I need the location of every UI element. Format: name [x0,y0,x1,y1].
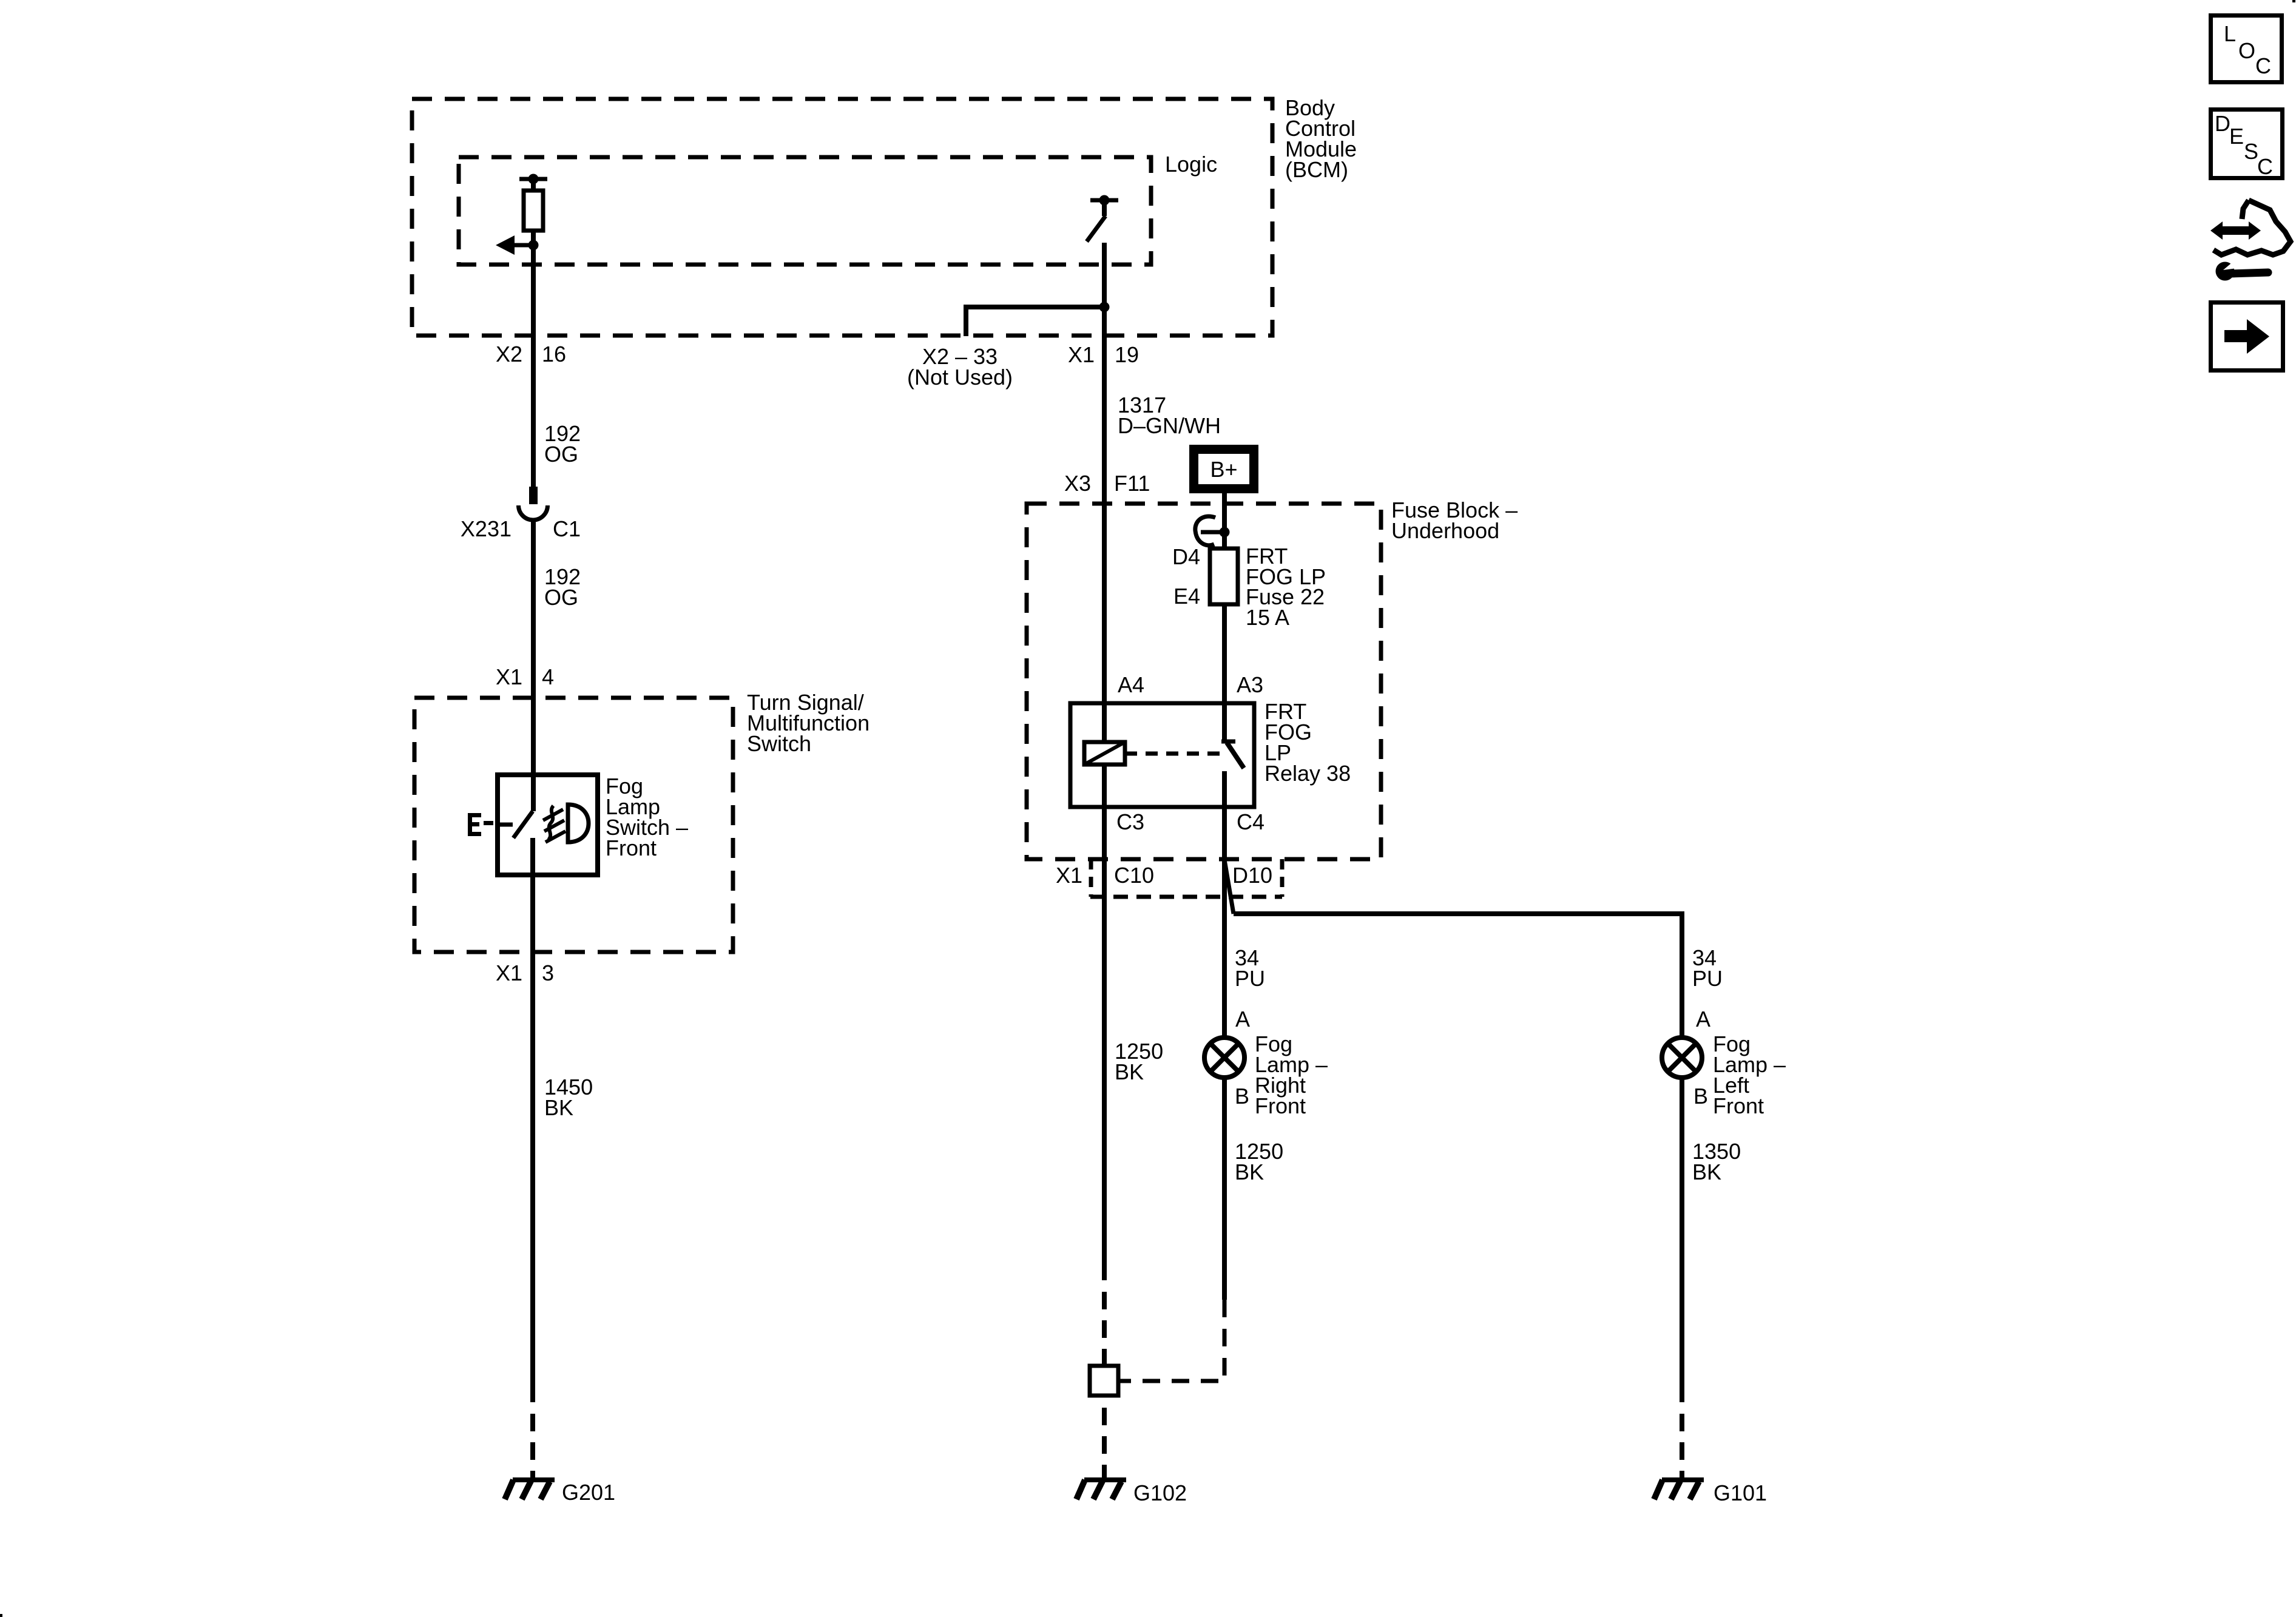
resistor (BCM driver) top tick [519,177,547,181]
wire lamp B down [1680,1077,1684,1402]
Logic dashed box [459,157,1151,265]
connector X1 row dashes right [1280,859,1285,897]
fog lamp switch blade [513,811,533,838]
wire to left front fog lamp [1234,914,1682,1036]
svg-text:(Not Used): (Not Used) [907,365,1013,390]
page mark top right [2292,0,2295,2]
svg-text:A4: A4 [1118,672,1144,697]
svg-text:G102: G102 [1133,1480,1187,1505]
fuse FRT FOG LP 22 [1210,549,1238,604]
svg-text:X1: X1 [496,960,522,985]
svg-text:Front: Front [1713,1093,1764,1118]
svg-text:E: E [2229,124,2244,149]
wire lamp B down [1222,1077,1227,1300]
svg-text:BK: BK [544,1095,573,1120]
svg-text:C10: C10 [1114,863,1154,888]
dashed wire to G201 [530,1414,535,1431]
svg-text:Underhood: Underhood [1391,518,1499,543]
svg-text:Front: Front [606,836,657,860]
svg-text:C1: C1 [553,516,581,541]
svg-text:3: 3 [542,960,554,985]
svg-text:OG: OG [544,585,578,610]
svg-text:16: 16 [542,342,566,366]
fog lamp right front symbol [1204,1038,1244,1078]
svg-text:E4: E4 [1173,584,1200,609]
svg-text:B: B [1693,1084,1708,1109]
relay coil [1084,742,1125,765]
fog lamp left front symbol [1662,1038,1702,1078]
svg-text:G101: G101 [1714,1480,1767,1505]
svg-text:C4: C4 [1237,809,1264,834]
svg-text:15 A: 15 A [1246,605,1289,630]
ground G201 [505,1480,555,1499]
wire C3 down [1102,765,1107,1280]
svg-text:F11: F11 [1114,471,1150,496]
connector X231 C1 male pin [529,487,538,504]
wire B+ down [1222,493,1227,549]
BCM module dashed box [412,99,1272,336]
page mark bottom left [0,1614,2,1617]
ground G102 [1076,1480,1126,1499]
fog lamp icon beams [543,809,563,820]
node resistor top [528,174,539,184]
fuse block underhood dashed box [1027,504,1381,859]
icon DESC box [2211,110,2283,180]
svg-text:PU: PU [1235,966,1265,991]
icon LOC box [2211,16,2282,83]
relay actuation dashed link [1125,752,1223,756]
svg-text:D4: D4 [1172,544,1200,569]
svg-text:C: C [2257,154,2273,179]
Turn Signal / Multifunction switch dashed box [414,698,733,952]
svg-text:G201: G201 [562,1480,615,1505]
svg-text:X231: X231 [461,516,512,541]
fog lamp icon fog squiggle [549,806,553,840]
svg-text:Relay 38: Relay 38 [1264,761,1351,786]
node X2-33 branch [1099,302,1110,312]
svg-text:C: C [2255,53,2271,78]
svg-text:(BCM): (BCM) [1285,157,1348,182]
relay switch blade [1221,740,1235,744]
node resistor output [528,240,539,251]
wire [531,179,536,192]
fog lamp icon lens [568,805,589,842]
switch E stub [500,823,513,827]
svg-text:19: 19 [1115,342,1139,367]
svg-text:S: S [2244,139,2258,164]
svg-text:A3: A3 [1237,672,1263,697]
resistor body [524,191,543,231]
dashed wire above splice [1102,1292,1107,1309]
svg-text:D: D [2215,111,2230,136]
logic switch blade [1087,216,1106,241]
node logic switch [1099,195,1110,206]
dashed wire to G101 [1680,1414,1684,1431]
svg-text:L: L [2224,21,2236,46]
ground G101 [1654,1480,1704,1499]
splice box [1090,1366,1118,1396]
svg-text:X1: X1 [1068,342,1095,367]
node fuse top [1220,527,1230,538]
connector X231 C1 female cup [519,505,548,520]
dashed wire splice to G102 [1102,1408,1107,1425]
svg-text:Front: Front [1255,1093,1306,1118]
wire [531,520,536,811]
wire [1102,200,1107,216]
svg-text:X3: X3 [1064,471,1091,496]
wire fuse to relay [1222,604,1227,741]
fusible element hook [1195,516,1215,545]
svg-text:A: A [1235,1007,1250,1031]
svg-text:D10: D10 [1232,863,1272,888]
svg-text:PU: PU [1692,966,1723,991]
svg-text:Switch: Switch [747,731,811,756]
svg-text:C3: C3 [1116,809,1144,834]
svg-text:O: O [2238,38,2255,63]
svg-text:OG: OG [544,442,578,467]
wire [531,231,536,487]
E marker glyph [468,813,493,836]
svg-text:B: B [1235,1084,1249,1109]
arrow output left [514,243,533,248]
fog lamp switch box [498,775,598,875]
svg-text:D–GN/WH: D–GN/WH [1118,413,1221,438]
svg-text:X1: X1 [1056,863,1082,888]
svg-text:4: 4 [542,664,554,689]
svg-text:A: A [1696,1007,1710,1031]
icon arrow box [2211,303,2283,371]
wire C4 down [1222,771,1227,1036]
connector X1 row bottom dashed [1090,895,1282,899]
svg-text:BK: BK [1115,1059,1144,1084]
svg-text:BK: BK [1692,1160,1721,1184]
svg-text:BK: BK [1235,1160,1264,1184]
svg-text:Logic: Logic [1165,152,1217,177]
D10 pass-through blade [1224,860,1234,914]
connector X1 row dashes left [1089,859,1093,897]
icon hand with wrench [2210,200,2291,281]
logic switch top tick [1090,198,1118,203]
wire X2-33 stub [966,307,1104,336]
wire below switch [530,838,535,1402]
wire A4 into relay [1102,504,1107,742]
svg-text:B+: B+ [1210,457,1237,482]
dashed wire lamp B to splice [1128,1300,1224,1381]
B+ box [1194,450,1254,489]
svg-text:X2: X2 [496,342,522,366]
wire X1-19 down [1102,243,1107,504]
relay box [1070,703,1254,807]
svg-text:X1: X1 [496,664,522,689]
